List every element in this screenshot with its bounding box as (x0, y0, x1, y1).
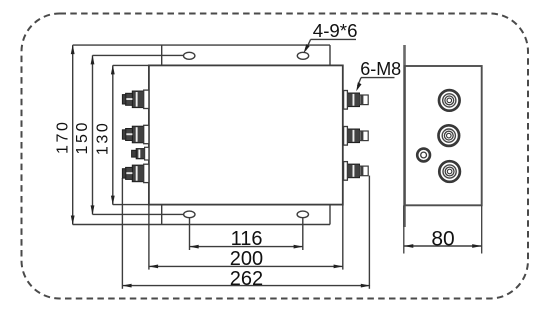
svg-text:150: 150 (74, 120, 91, 155)
top flange left edge (161, 45, 163, 65)
svg-text:130: 130 (95, 121, 112, 156)
150 bottom extension line (93, 213, 184, 215)
label 6-M8 underline (361, 77, 395, 79)
arrows of dimension 150 (91, 55, 95, 215)
116 right extension drop (302, 218, 304, 250)
dimension line 150 (92, 55, 94, 214)
terminal left row2 (122, 125, 149, 143)
terminal left row3 (122, 164, 149, 182)
flange bottom edge with 170 extension (73, 224, 330, 226)
80 right extension drop (481, 205, 483, 253)
label 4-9*6 underline (311, 38, 357, 40)
label 6-M8 leader (358, 78, 361, 86)
side view flange plate edge (403, 45, 406, 227)
130 bottom extension line (113, 204, 149, 206)
arrows of dimension 170 (71, 45, 75, 225)
mounting hole top-left (184, 52, 195, 59)
terminal left row1 (122, 90, 149, 108)
svg-text:6-M8: 6-M8 (360, 59, 401, 79)
arrows of dimension 200 (149, 265, 344, 269)
dimension line 170 (72, 45, 74, 224)
filter body box (149, 65, 343, 204)
262 left extension drop (121, 178, 123, 289)
terminal right row1 (344, 91, 369, 110)
svg-text:116: 116 (231, 228, 263, 250)
arrows of dimension 130 (111, 65, 115, 205)
arrows of dimension 262 (122, 284, 370, 288)
terminal right row3 (344, 162, 369, 181)
mounting hole bottom-right (297, 211, 308, 218)
80 left extension drop (403, 205, 405, 253)
small ground stud left (132, 147, 149, 160)
svg-text:262: 262 (230, 268, 263, 290)
dimension line 262 (122, 285, 370, 287)
mounting hole top-right (297, 52, 308, 59)
dimension line 80 (404, 245, 482, 247)
flange top edge with 170 extension (73, 44, 330, 46)
side terminal circle 3 (439, 161, 460, 182)
dimension line 200 (149, 265, 343, 267)
bottom flange left edge (161, 205, 163, 225)
200 left extension drop (148, 205, 150, 270)
arrows of dimension 116 (189, 245, 303, 249)
200 right extension drop (342, 205, 344, 270)
dashed border (22, 14, 529, 299)
svg-text:4-9*6: 4-9*6 (313, 20, 358, 41)
label 4-9*6 leader (306, 40, 311, 51)
dimension line 130 (112, 65, 114, 204)
side small stud circle (417, 149, 430, 162)
side terminal circle 1 (439, 90, 460, 111)
arrow of label 4-9*6 leader (304, 44, 310, 53)
svg-text:200: 200 (230, 248, 263, 270)
150 top extension line (93, 54, 184, 56)
svg-text:80: 80 (431, 228, 454, 251)
svg-text:170: 170 (54, 120, 71, 155)
side view body (405, 66, 482, 205)
side terminal circle 2 (439, 125, 460, 146)
262 right extension drop (368, 176, 370, 289)
mounting hole bottom-left (184, 211, 195, 218)
bottom flange right edge (329, 205, 331, 225)
terminal right row2 (344, 127, 369, 146)
116 left extension drop (189, 218, 191, 250)
dimension line 116 (190, 246, 303, 248)
130 top extension line (113, 64, 149, 66)
top flange right edge (329, 45, 331, 65)
arrows of dimension 80 (404, 244, 482, 248)
arrow of label 6-M8 leader (356, 82, 361, 91)
